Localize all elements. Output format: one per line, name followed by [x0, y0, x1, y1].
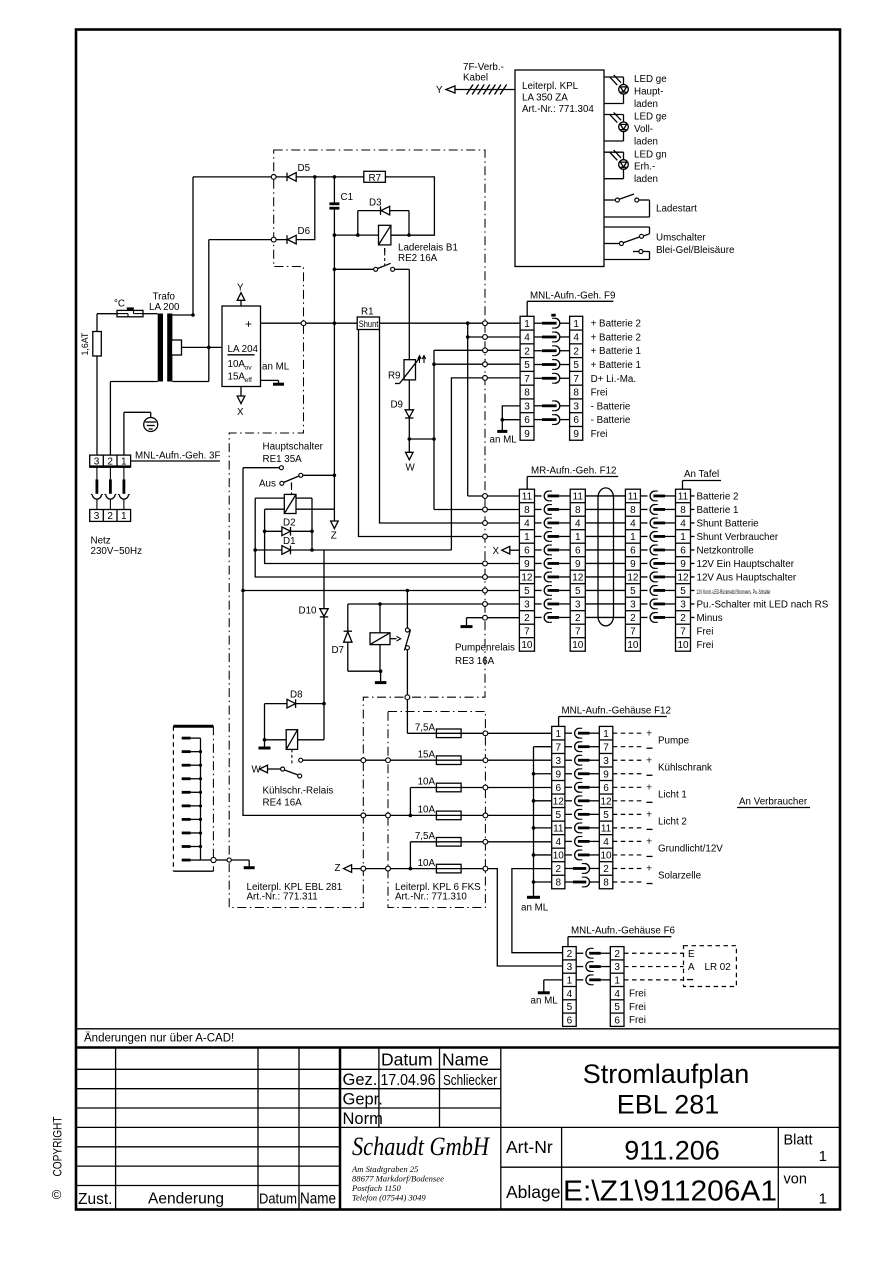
- wire LA204 plus output: [261, 322, 358, 324]
- svg-text:7: 7: [556, 742, 562, 753]
- svg-text:EBL 281: EBL 281: [617, 1090, 720, 1120]
- wire shunt sense left to MR row1: [359, 330, 520, 537]
- svg-text:1: 1: [121, 511, 127, 522]
- svg-text:+ Batterie 1: + Batterie 1: [591, 360, 641, 371]
- svg-text:4: 4: [524, 519, 530, 530]
- svg-text:E:\Z1\911206A1: E:\Z1\911206A1: [563, 1176, 777, 1208]
- contact pair MR pin 11 col3-col4: [640, 495, 647, 497]
- svg-text:7: 7: [524, 374, 530, 385]
- svg-text:Telefon (07544) 3049: Telefon (07544) 3049: [352, 1193, 426, 1203]
- wire D8 left to ground: [264, 704, 266, 747]
- svg-text:Solarzelle: Solarzelle: [658, 871, 702, 882]
- LED D2 indicator Voll-laden: [604, 114, 624, 116]
- svg-text:eff: eff: [245, 377, 253, 384]
- svg-text:A: A: [688, 962, 695, 973]
- stub F12 minus pin 12: [534, 800, 552, 802]
- wire D5 row: [193, 176, 287, 178]
- resistor R7: [364, 171, 386, 182]
- diode D3: [358, 210, 381, 212]
- svg-text:+ Batterie 2: + Batterie 2: [591, 332, 641, 343]
- ground an ML F12: [527, 896, 540, 899]
- switch Umschalter Blei-Gel/Bleisaeure: [604, 226, 650, 228]
- svg-text:3: 3: [573, 401, 579, 412]
- contact pair MR pin 8 col3-col4: [640, 508, 647, 510]
- svg-text:MNL-Aufn.-Geh. F9: MNL-Aufn.-Geh. F9: [530, 291, 615, 302]
- contact pair F12 pin 9: [565, 773, 572, 775]
- fuse 10A: [436, 811, 461, 820]
- connector pin 2: [182, 750, 191, 753]
- svg-text:12: 12: [677, 573, 689, 584]
- svg-text:8: 8: [575, 505, 581, 516]
- PCB box Leiterpl. KPL LA 350 ZA: [515, 70, 604, 267]
- svg-text:10A: 10A: [418, 858, 436, 869]
- connector pin 6: [182, 804, 191, 807]
- stub F12 minus pin 9: [534, 773, 552, 775]
- resistor R9 variable: [404, 360, 416, 380]
- svg-text:12: 12: [553, 796, 565, 807]
- svg-text:Batterie 1: Batterie 1: [697, 505, 739, 516]
- contact pair MR pin 6 col3-col4: [640, 549, 647, 551]
- stub MR pin 2 to label: [691, 616, 695, 618]
- svg-text:4: 4: [630, 519, 636, 530]
- wire D7 bottom to coil ground: [348, 670, 381, 672]
- dashed lead F12 pin 11: [613, 827, 643, 829]
- diode D10: [323, 550, 325, 609]
- svg-text:1: 1: [575, 532, 581, 543]
- svg-text:10: 10: [627, 640, 639, 651]
- svg-text:MNL-Aufn.-Gehäuse F6: MNL-Aufn.-Gehäuse F6: [571, 926, 676, 937]
- wire primary bottom to mains 2: [110, 381, 157, 383]
- svg-text:4: 4: [556, 837, 562, 848]
- switch RE3: [406, 591, 408, 628]
- svg-text:Minus: Minus: [697, 613, 723, 624]
- svg-text:5: 5: [524, 360, 530, 371]
- relay coil Kuehlschr RE4: [286, 730, 297, 750]
- wire fuse 7,5A to F12 Pumpe: [461, 732, 552, 734]
- contact pair MR pin 6 col1-col2: [535, 549, 542, 551]
- svg-text:6: 6: [567, 1015, 573, 1026]
- R9 arrows: [418, 356, 421, 363]
- contact pair F12 pin 5: [565, 813, 572, 815]
- svg-text:Pu.-Schalter mit LED nach: Pu.-Schalter mit LED nach RS: [697, 599, 829, 610]
- stub F12 minus pin 10: [534, 854, 552, 856]
- connector pin 7: [182, 818, 191, 821]
- relay coil RE1: [284, 494, 296, 513]
- diode D5: [286, 173, 288, 182]
- title block left table: [76, 1068, 340, 1070]
- svg-text:Voll-: Voll-: [634, 124, 653, 135]
- LED D3 indicator Erh.-laden: [604, 151, 624, 153]
- svg-text:RE1 35A: RE1 35A: [263, 454, 303, 465]
- svg-text:laden: laden: [634, 99, 658, 110]
- wire shunt sense right to MR row4: [380, 330, 520, 524]
- PCB boundary Leiterpl. KPL 6 FKS (dash-dot): [388, 712, 485, 908]
- svg-text:Kabel: Kabel: [463, 73, 488, 84]
- svg-text:D9: D9: [390, 400, 403, 411]
- svg-text:Gepr.: Gepr.: [343, 1091, 383, 1109]
- wire fuse 10A solar to F6 A: [461, 869, 562, 966]
- contact pair MR pin 1 col3-col4: [640, 535, 647, 537]
- connector F6 column 1: [563, 947, 577, 1027]
- wire D6 to D5 bypass: [296, 177, 315, 240]
- svg-text:an ML: an ML: [521, 903, 549, 914]
- svg-text:2: 2: [630, 613, 636, 624]
- svg-text:2: 2: [524, 613, 530, 624]
- contact pair MR pin 9 col3-col4: [640, 562, 647, 564]
- contact pair F12 pin 12: [565, 800, 572, 802]
- contact pair MR pin 2 col3-col4: [640, 616, 647, 618]
- ground at RE3 coil: [380, 671, 382, 681]
- svg-text:Frei: Frei: [697, 640, 714, 651]
- wire MR row11 batt2: [468, 495, 520, 497]
- diode D9: [405, 410, 413, 418]
- svg-text:3: 3: [556, 756, 562, 767]
- relay coil Laderelais B1 RE2: [379, 225, 391, 245]
- dashed lead F12 pin 5: [613, 813, 643, 815]
- contact pair F6 pin 2: [576, 952, 583, 954]
- wire MR pin 9 col2-col3: [585, 562, 625, 564]
- dashed lead F12 pin 4: [613, 840, 643, 842]
- svg-text:12V Ein Hauptschalter: 12V Ein Hauptschalter: [697, 559, 795, 570]
- svg-text:+: +: [245, 317, 252, 331]
- contact pair MR pin 12 col1-col2: [535, 576, 542, 578]
- svg-text:2: 2: [614, 949, 620, 960]
- stub MR pin 5 to label: [691, 589, 695, 591]
- wire MR pin 3 col2-col3: [585, 603, 625, 605]
- svg-text:W: W: [406, 463, 416, 474]
- svg-text:Datum: Datum: [259, 1192, 297, 1208]
- svg-text:2: 2: [556, 864, 562, 875]
- switch RE1 lever: [280, 481, 284, 485]
- svg-text:6: 6: [614, 1015, 620, 1026]
- svg-text:+: +: [646, 863, 652, 875]
- svg-text:4: 4: [573, 333, 579, 344]
- wire fuse 7,5A Grundlicht feed: [410, 842, 436, 869]
- svg-text:911.206: 911.206: [624, 1136, 720, 1166]
- svg-text:5: 5: [614, 1002, 620, 1013]
- svg-text:4: 4: [575, 519, 581, 530]
- svg-text:11: 11: [678, 492, 689, 503]
- wire RE4 switch to 15A fuse: [303, 759, 437, 761]
- svg-text:RE4 16A: RE4 16A: [263, 798, 303, 809]
- node W arrow down: [408, 439, 410, 452]
- svg-text:1: 1: [603, 729, 609, 740]
- switch RE1 aus terminal: [243, 467, 279, 469]
- svg-text:laden: laden: [634, 174, 658, 185]
- svg-text:Grundlicht/12V: Grundlicht/12V: [658, 844, 723, 855]
- diode D1 on D+ row: [255, 549, 282, 551]
- svg-text:Schaudt GmbH: Schaudt GmbH: [352, 1132, 490, 1161]
- svg-text:D5: D5: [298, 163, 311, 174]
- svg-text:3: 3: [94, 511, 100, 522]
- svg-text:11: 11: [553, 823, 564, 834]
- svg-text:3: 3: [94, 457, 100, 468]
- svg-text:- Batterie: - Batterie: [591, 401, 631, 412]
- switch Ladestart: [604, 199, 615, 201]
- svg-text:LED ge: LED ge: [634, 112, 667, 123]
- svg-text:Leiterpl. KPL: Leiterpl. KPL: [522, 81, 579, 92]
- svg-text:Postfach 1150: Postfach 1150: [351, 1183, 401, 1193]
- wire fuse 7,5A to F12 Grundlicht: [461, 841, 552, 843]
- svg-text:3: 3: [575, 600, 581, 611]
- svg-text:12V Kontr.-LED-Rückmeld./Strom: 12V Kontr.-LED-Rückmeld./Stromvers. Pu.-…: [697, 589, 771, 596]
- svg-text:5: 5: [524, 586, 530, 597]
- contact pair MR pin 3 col1-col2: [535, 603, 542, 605]
- svg-text:6: 6: [575, 546, 581, 557]
- ground an ML at LA204: [261, 379, 279, 381]
- svg-text:2: 2: [680, 613, 686, 624]
- svg-text:15A: 15A: [418, 749, 436, 760]
- svg-text:C1: C1: [341, 192, 354, 203]
- svg-text:Blei-Gel/Bleisäure: Blei-Gel/Bleisäure: [656, 245, 735, 256]
- contact pair F9 pin 1: [534, 322, 542, 324]
- svg-text:6: 6: [603, 783, 609, 794]
- fuse 10A: [436, 783, 461, 792]
- wire MR pin 5 col2-col3: [585, 589, 625, 591]
- svg-text:7: 7: [524, 627, 530, 638]
- svg-text:Z: Z: [335, 863, 341, 874]
- svg-text:4: 4: [614, 989, 620, 1000]
- svg-text:3: 3: [524, 401, 530, 412]
- LED D1 indicator Haupt-laden: [604, 76, 624, 78]
- contact pair F12 pin 3: [565, 759, 572, 761]
- mechanical link RE4: [291, 749, 293, 765]
- wire F6 E to F12 Solarzelle: [512, 869, 563, 953]
- svg-text:Aenderung: Aenderung: [148, 1191, 224, 1208]
- stub F12 minus pin 11: [534, 827, 552, 829]
- capacitor C1: [333, 177, 335, 203]
- title block right rows: [501, 1126, 840, 1128]
- svg-text:Licht 1: Licht 1: [658, 789, 687, 800]
- svg-text:10: 10: [521, 640, 533, 651]
- svg-text:Y: Y: [436, 85, 443, 96]
- PCB boundary Leiterpl. KPL EBL 281 (dash-dot): [229, 150, 485, 908]
- connector pin 10: [182, 859, 191, 862]
- svg-text:7,5A: 7,5A: [415, 723, 436, 734]
- minus sign Grundlicht/12V: [647, 855, 653, 857]
- earth symbol: [123, 412, 125, 455]
- stub MR pin 8 to label: [691, 508, 695, 510]
- svg-text:10A: 10A: [418, 777, 436, 788]
- svg-text:COPYRIGHT: COPYRIGHT: [53, 1117, 65, 1177]
- connector F12 column 1: [552, 726, 565, 888]
- svg-text:15A: 15A: [228, 372, 246, 383]
- svg-text:+ Batterie 2: + Batterie 2: [591, 319, 641, 330]
- node Y arrow LA204: [240, 300, 242, 306]
- svg-text:Y: Y: [237, 283, 244, 294]
- svg-text:Art.-Nr.: 771.304: Art.-Nr.: 771.304: [522, 104, 594, 115]
- svg-text:D3: D3: [369, 198, 382, 209]
- stub MR pin 9 to label: [691, 562, 695, 564]
- svg-text:Shunt Verbraucher: Shunt Verbraucher: [697, 532, 779, 543]
- svg-text:LED ge: LED ge: [634, 74, 667, 85]
- svg-text:an ML: an ML: [531, 996, 559, 1007]
- ground minus MR row 2: [467, 617, 520, 619]
- svg-text:Änderungen nur über A-CAD!: Änderungen nur über A-CAD!: [84, 1033, 234, 1045]
- wire D6 row: [209, 239, 287, 241]
- svg-text:Art.-Nr.: 771.311: Art.-Nr.: 771.311: [247, 892, 318, 903]
- svg-text:3: 3: [603, 756, 609, 767]
- terminal block Netz upper 3 2 1: [90, 455, 131, 467]
- fuse 1,6AT: [96, 314, 98, 332]
- svg-text:Aus: Aus: [259, 479, 276, 490]
- wire MR pin 2 col2-col3: [585, 616, 625, 618]
- dashed lead F12 pin 6: [613, 786, 643, 788]
- svg-text:9: 9: [524, 559, 530, 570]
- svg-text:12: 12: [521, 573, 533, 584]
- wire MR row5 kontr: [243, 590, 519, 592]
- svg-text:W: W: [252, 765, 262, 776]
- connector bus: [200, 738, 202, 860]
- svg-text:RE3 16A: RE3 16A: [455, 656, 495, 667]
- connector MR column 4: [676, 489, 691, 651]
- svg-text:von: von: [784, 1172, 807, 1188]
- dashed lead F12 pin 1: [613, 732, 643, 734]
- contact pair F12 pin 7: [565, 746, 572, 748]
- mechanical link RE3: [390, 638, 397, 640]
- svg-text:9: 9: [556, 769, 562, 780]
- diode D8: [265, 703, 288, 705]
- connector MR column 3: [625, 489, 640, 651]
- svg-text:+ Batterie 1: + Batterie 1: [591, 346, 641, 357]
- svg-text:Ablage: Ablage: [506, 1182, 561, 1202]
- connector F12 column 2: [599, 726, 613, 888]
- wire fuse 10A to F12 Licht2: [461, 814, 552, 816]
- svg-text:Art.-Nr.: 771.310: Art.-Nr.: 771.310: [395, 892, 467, 903]
- contact pair F9 pin 7: [534, 377, 542, 379]
- svg-text:6: 6: [524, 415, 530, 426]
- svg-text:10: 10: [677, 640, 689, 651]
- contact pair MR pin 4 col3-col4: [640, 522, 647, 524]
- wire F9 row4: [468, 336, 520, 338]
- contact pair MR pin 1 col1-col2: [535, 535, 542, 537]
- connector pin 1: [182, 737, 191, 740]
- stub MR pin 1 to label: [691, 535, 695, 537]
- svg-text:4: 4: [524, 333, 530, 344]
- contact pair F6 pin 3: [576, 966, 583, 968]
- svg-text:R7: R7: [369, 173, 382, 184]
- svg-text:D7: D7: [331, 645, 344, 656]
- svg-text:1: 1: [680, 532, 686, 543]
- wire C1 vertical main: [333, 209, 335, 524]
- svg-text:+: +: [646, 836, 652, 848]
- connector F9 key mark: [551, 314, 555, 317]
- dashed lead F12 pin 2: [613, 867, 643, 869]
- svg-text:Kühlschrank: Kühlschrank: [658, 762, 712, 773]
- svg-text:9: 9: [524, 429, 530, 440]
- wire D5 to R7: [296, 176, 364, 178]
- svg-text:1: 1: [121, 457, 127, 468]
- svg-text:12: 12: [600, 796, 612, 807]
- svg-text:Frei: Frei: [629, 989, 646, 1000]
- wire MR pin 1 col2-col3: [585, 535, 625, 537]
- svg-text:8: 8: [680, 505, 686, 516]
- svg-text:230V~50Hz: 230V~50Hz: [91, 546, 143, 557]
- stub MR pin 3 to label: [691, 603, 695, 605]
- svg-text:4: 4: [680, 519, 686, 530]
- svg-text:Name: Name: [442, 1050, 489, 1070]
- switch RE4: [281, 767, 285, 771]
- title block middle table Gez/Gepr/Norm: [378, 1048, 380, 1128]
- wire batt2 net vertical: [467, 323, 469, 496]
- svg-text:8: 8: [524, 388, 530, 399]
- svg-text:3: 3: [614, 962, 620, 973]
- ground an ML F6: [544, 979, 563, 981]
- svg-text:Zust.: Zust.: [78, 1191, 112, 1208]
- svg-text:10A: 10A: [228, 359, 246, 370]
- svg-text:Datum: Datum: [381, 1050, 433, 1070]
- svg-text:3: 3: [567, 962, 573, 973]
- svg-text:Norm: Norm: [343, 1110, 383, 1128]
- svg-text:6: 6: [556, 783, 562, 794]
- svg-text:17.04.96: 17.04.96: [381, 1072, 436, 1089]
- svg-text:+: +: [646, 727, 652, 739]
- stub MR pin 12 to label: [691, 576, 695, 578]
- minus sign Pumpe: [647, 747, 653, 749]
- dashed lead F12 pin 12: [613, 800, 643, 802]
- svg-text:+: +: [646, 809, 652, 821]
- svg-text:Blatt: Blatt: [784, 1133, 813, 1149]
- svg-text:7: 7: [603, 742, 609, 753]
- terminal block Netz lower 3 2 1: [90, 510, 131, 522]
- svg-text:12: 12: [572, 573, 584, 584]
- stub MR pin 6 to label: [691, 549, 695, 551]
- svg-text:an ML: an ML: [262, 362, 290, 373]
- svg-text:5: 5: [630, 586, 636, 597]
- diode D2: [265, 530, 282, 532]
- contact pair F9 pin 6: [534, 419, 542, 421]
- svg-text:Frei: Frei: [629, 1015, 646, 1026]
- svg-text:8: 8: [573, 388, 579, 399]
- wire MR row8 batt1: [434, 509, 519, 511]
- contact pair MR pin 8 col1-col2: [535, 508, 542, 510]
- svg-text:2: 2: [524, 346, 530, 357]
- fuse 15A: [436, 756, 461, 765]
- stub F12 minus pin 7: [534, 746, 552, 748]
- svg-text:Hauptschalter: Hauptschalter: [263, 442, 324, 453]
- wire F9 row2: [434, 349, 520, 351]
- svg-text:2: 2: [567, 949, 573, 960]
- wire MR pin 12 col2-col3: [585, 576, 625, 578]
- connector pin 8: [182, 832, 191, 835]
- wire RE2 switch to R9: [408, 269, 410, 359]
- svg-text:Pumpe: Pumpe: [658, 735, 690, 746]
- svg-text:Erh.-: Erh.-: [634, 162, 655, 173]
- mechanical link RE2: [384, 248, 386, 253]
- svg-text:R9: R9: [388, 371, 401, 382]
- svg-text:11: 11: [601, 823, 612, 834]
- transformer tap: [172, 340, 182, 355]
- wire shunt to F9 row1: [380, 322, 521, 324]
- wire fuse 15A to F12 Kuehlschrank: [461, 759, 552, 761]
- contact pair F6 pin 1: [576, 979, 583, 981]
- svg-text:°C: °C: [114, 299, 125, 310]
- svg-text:5: 5: [573, 360, 579, 371]
- svg-text:11: 11: [522, 492, 533, 503]
- svg-text:88677 Markdorf/Bodensee: 88677 Markdorf/Bodensee: [352, 1174, 444, 1184]
- svg-text:8: 8: [630, 505, 636, 516]
- svg-text:Licht 2: Licht 2: [658, 817, 687, 828]
- svg-text:X: X: [237, 407, 244, 418]
- svg-text:4: 4: [567, 989, 573, 1000]
- svg-text:Umschalter: Umschalter: [656, 233, 706, 244]
- svg-text:12: 12: [627, 573, 639, 584]
- connector pin 4: [182, 777, 191, 780]
- svg-text:10: 10: [600, 851, 612, 862]
- svg-text:Pumpenrelais: Pumpenrelais: [455, 643, 515, 654]
- svg-text:10: 10: [572, 640, 584, 651]
- svg-text:4: 4: [603, 837, 609, 848]
